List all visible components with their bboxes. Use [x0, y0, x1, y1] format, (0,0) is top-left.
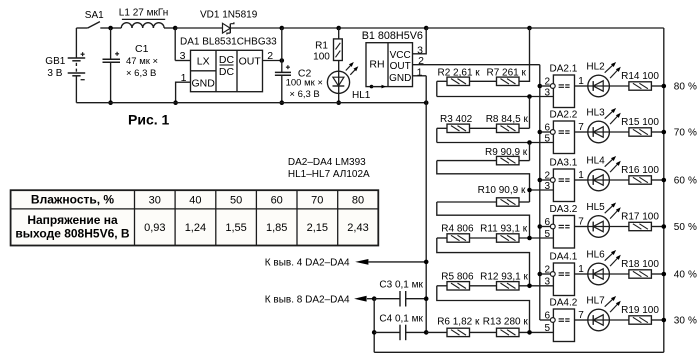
label R13: [483, 316, 529, 327]
svg-text:%: %: [688, 269, 697, 280]
label R16 100: [621, 165, 659, 176]
wire R10 jog: [437, 202, 530, 238]
op-amp DA4.1: [550, 263, 574, 296]
svg-text:R16 100: R16 100: [621, 165, 659, 176]
net to pin4 arrow: [355, 259, 426, 265]
svg-text:R5 806: R5 806: [441, 271, 474, 282]
label L1 value: [119, 8, 168, 19]
svg-text:2,15: 2,15: [307, 222, 328, 234]
svg-text:R17 100: R17 100: [621, 212, 659, 223]
pin 1 output DA2.1: [575, 76, 588, 87]
svg-text:3: 3: [544, 87, 550, 98]
resistor R16: [609, 176, 663, 184]
label HL1: [352, 90, 371, 101]
wire top rail left: [111, 27, 122, 29]
label GND B1: [389, 73, 411, 84]
node junction B: [527, 140, 532, 145]
label DA2.1: [550, 64, 578, 75]
pin 1 output DA3.1: [575, 170, 588, 181]
table humidity-voltage: [11, 190, 379, 245]
node junction R1 branch: [336, 26, 341, 31]
svg-text:R11 93,1 к: R11 93,1 к: [480, 224, 528, 235]
label C1 value: [126, 56, 158, 79]
node junction out rail row 3: [538, 178, 543, 183]
svg-text:3: 3: [544, 277, 550, 288]
table row humidity values: [149, 194, 364, 206]
svg-text:R19 100: R19 100: [621, 305, 659, 316]
svg-text:R7 261 к: R7 261 к: [487, 67, 527, 78]
node junction DA1 gnd: [173, 100, 178, 105]
svg-text:R3 402: R3 402: [440, 114, 473, 125]
resistor R17: [609, 222, 663, 230]
pin 5 label DA3.2: [544, 229, 550, 240]
pin 1 DA1: [176, 72, 191, 103]
resistor R10: [437, 198, 530, 206]
svg-text:DA3.2: DA3.2: [550, 204, 578, 215]
resistor R12: [470, 282, 554, 290]
label HL1-HL7 AL102A: [288, 169, 370, 180]
svg-text:GND: GND: [389, 73, 411, 84]
svg-text:DA2.1: DA2.1: [550, 64, 578, 75]
svg-text:HL1: HL1: [352, 90, 371, 101]
wire C2 riser: [281, 28, 283, 72]
svg-text:70: 70: [311, 194, 323, 206]
capacitor C1: [103, 28, 121, 103]
svg-text:%: %: [688, 175, 697, 186]
svg-text:1: 1: [417, 66, 423, 78]
sensor electrode arrow: [370, 85, 386, 89]
node junction gnd rail end: [424, 100, 429, 105]
led HL6: [588, 250, 621, 285]
svg-text:60: 60: [674, 175, 686, 186]
resistor R13: [470, 328, 554, 336]
label HL3: [586, 108, 605, 119]
label R18 100: [621, 259, 659, 270]
svg-text:LX: LX: [197, 55, 210, 67]
wire top rail to right corner: [530, 27, 664, 29]
pin 3 label DA3.1: [544, 181, 550, 192]
svg-text:R10 90,9 к: R10 90,9 к: [478, 185, 526, 196]
svg-text:R1: R1: [315, 41, 328, 52]
node junction HL1 bottom: [336, 100, 341, 105]
wire top rail L1 to VD1 node: [164, 27, 175, 29]
svg-text:DA1 BL8531CHBG33: DA1 BL8531CHBG33: [180, 36, 277, 47]
wire node A: [437, 81, 554, 96]
svg-text:47 мк ×: 47 мк ×: [126, 56, 158, 67]
node junction ladder VCC feed: [527, 26, 532, 31]
svg-text:Напряжение на: Напряжение на: [27, 213, 118, 227]
svg-text:× 6,3 В: × 6,3 В: [289, 89, 319, 100]
wire R5 jog: [437, 286, 530, 333]
led HL1: [327, 62, 358, 93]
label HL4: [586, 156, 605, 167]
wire top rail to B1 VCC node: [339, 27, 427, 29]
label 60 %: [674, 175, 697, 186]
label 80 %: [674, 81, 697, 92]
svg-text:30: 30: [674, 315, 686, 326]
svg-text:%: %: [688, 127, 697, 138]
label VCC: [390, 50, 411, 61]
node junction out rail row 5: [538, 272, 543, 277]
svg-text:DA2–DA4 LM393: DA2–DA4 LM393: [288, 157, 366, 168]
svg-text:VD1 1N5819: VD1 1N5819: [200, 9, 258, 20]
svg-text:1: 1: [578, 170, 584, 181]
inductor L1: [121, 19, 165, 28]
svg-text:40: 40: [189, 194, 201, 206]
wire top rail to ladder feed: [426, 27, 529, 29]
svg-text:50: 50: [230, 194, 242, 206]
wire node B to R9: [529, 143, 531, 161]
svg-text:OUT: OUT: [239, 55, 262, 67]
svg-text:DC: DC: [219, 54, 235, 66]
svg-text:HL6: HL6: [586, 250, 605, 261]
label DA1 BL8531CHBG33: [180, 36, 277, 47]
svg-text:Влажность, %: Влажность, %: [31, 193, 114, 207]
svg-text:HL5: HL5: [586, 202, 605, 213]
resistor R1: [334, 28, 343, 61]
pin 7 output DA2.2: [575, 122, 588, 133]
pin 6 wire DA2.2: [540, 123, 551, 134]
label LX: [197, 55, 210, 67]
label R17 100: [621, 212, 659, 223]
svg-text:5: 5: [544, 323, 550, 334]
svg-text:1,24: 1,24: [185, 222, 206, 234]
svg-text:2,43: 2,43: [347, 222, 368, 234]
wire sensor out rail: [539, 65, 541, 320]
node junction C2 bottom: [280, 100, 285, 105]
op-amp DA2.1: [550, 75, 574, 108]
node junction A: [527, 94, 532, 99]
svg-text:Рис. 1: Рис. 1: [128, 112, 170, 128]
wire top rail diode to C2 node: [230, 27, 281, 29]
pin 1 B1: [413, 66, 427, 78]
pin 2 wire DA3.1: [540, 171, 551, 182]
svg-text:3 В: 3 В: [47, 68, 62, 79]
wire node B: [437, 128, 554, 142]
svg-text:R18 100: R18 100: [621, 259, 659, 270]
ic DA1 box: [191, 50, 263, 91]
node junction out rail row 4: [538, 224, 543, 229]
label C3: [379, 280, 423, 291]
label R8: [486, 114, 529, 125]
pin 3 label DA2.1: [544, 87, 550, 98]
svg-text:30: 30: [149, 194, 161, 206]
op-amp DA3.2: [550, 216, 574, 249]
wire R1 to HL1: [338, 61, 340, 103]
svg-text:GND: GND: [192, 78, 216, 90]
svg-text:DA3.1: DA3.1: [550, 158, 578, 169]
svg-text:R8 84,5 к: R8 84,5 к: [486, 114, 529, 125]
op-amp DA2.2: [550, 121, 574, 154]
svg-text:80: 80: [352, 194, 364, 206]
node junction C4 left: [372, 330, 377, 335]
capacitor C2: [275, 65, 291, 103]
node junction right rail row 4: [662, 224, 667, 229]
label 40 %: [674, 269, 697, 280]
label K vyv 8: [265, 294, 350, 305]
sensor B1 box: [366, 43, 413, 87]
svg-text:R6 1,82 к: R6 1,82 к: [437, 316, 480, 327]
wire VCC feed to R7: [519, 28, 530, 81]
label C2: [298, 67, 312, 79]
label DA4.2: [550, 298, 578, 309]
label OUT DA1: [239, 55, 262, 67]
resistor R4: [437, 234, 470, 242]
svg-text:С3 0,1 мк: С3 0,1 мк: [379, 280, 423, 291]
label R12: [480, 271, 528, 282]
label K vyv 4: [265, 257, 350, 268]
resistor R7: [470, 77, 520, 85]
resistor R3: [437, 124, 470, 132]
led HL4: [588, 156, 621, 191]
svg-text:R9 90,9 к: R9 90,9 к: [485, 147, 528, 158]
svg-text:1,85: 1,85: [266, 222, 287, 234]
led HL5: [588, 203, 621, 238]
label DA3.1: [550, 158, 578, 169]
wire top rail to diode: [175, 27, 222, 29]
resistor R14: [609, 82, 663, 90]
svg-text:5: 5: [544, 133, 550, 144]
svg-text:R13 280 к: R13 280 к: [483, 316, 529, 327]
label DA2-DA4 LM393: [288, 157, 366, 168]
node junction E: [527, 284, 532, 289]
label DA4.1: [550, 252, 578, 263]
label R19 100: [621, 305, 659, 316]
svg-text:100 мк ×: 100 мк ×: [286, 78, 323, 89]
label C1: [135, 43, 149, 55]
svg-text:HL4: HL4: [586, 156, 605, 167]
resistor R18: [609, 270, 663, 278]
pin 2 DA1: [263, 50, 282, 62]
label RH: [369, 58, 384, 70]
svg-text:0,93: 0,93: [144, 222, 165, 234]
label R4: [441, 224, 474, 235]
pin 7 output DA3.2: [575, 216, 588, 227]
resistor R6: [426, 328, 469, 336]
svg-text:6: 6: [544, 217, 550, 228]
svg-text:SA1: SA1: [85, 10, 104, 21]
pin 7 output DA4.2: [575, 310, 588, 321]
wire bottom rail: [374, 351, 664, 353]
svg-text:1: 1: [578, 264, 584, 275]
svg-text:B1 808H5V6: B1 808H5V6: [362, 30, 423, 42]
pin 2 wire DA4.1: [540, 265, 551, 276]
node junction C4 right gnd: [424, 330, 429, 335]
wire R9 jog: [437, 161, 530, 202]
resistor R15: [609, 128, 663, 136]
svg-text:DC: DC: [219, 66, 235, 78]
svg-text:2: 2: [544, 77, 550, 88]
op-amp DA3.1: [550, 169, 574, 202]
svg-text:7: 7: [578, 216, 584, 227]
svg-text:%: %: [688, 315, 697, 326]
svg-text:VCC: VCC: [390, 50, 411, 61]
led HL2: [588, 62, 621, 97]
svg-text:70: 70: [674, 127, 686, 138]
led HL3: [588, 108, 621, 143]
node junction DA1 LX branch: [173, 26, 178, 31]
svg-text:GB1: GB1: [45, 56, 65, 67]
svg-text:К выв. 4 DA2–DA4: К выв. 4 DA2–DA4: [265, 257, 350, 268]
svg-text:R12 93,1 к: R12 93,1 к: [480, 271, 528, 282]
node junction right rail row 1: [662, 84, 667, 89]
label DA2.2: [550, 110, 578, 121]
pin 1 output DA4.1: [575, 264, 588, 275]
net to pin8 arrow: [354, 296, 374, 302]
svg-text:R14 100: R14 100: [621, 71, 659, 82]
label B1 808H5V6: [362, 30, 423, 42]
svg-text:7: 7: [578, 310, 584, 321]
resistor R2: [437, 77, 470, 85]
resistor R11: [470, 234, 554, 242]
node junction C3 right: [424, 296, 429, 301]
svg-text:%: %: [688, 222, 697, 233]
label HL2: [586, 62, 605, 73]
switch SA1: [76, 22, 110, 28]
node junction C1 bottom: [108, 100, 113, 105]
svg-text:выходе 808H5V6, В: выходе 808H5V6, В: [15, 226, 130, 240]
svg-text:R15 100: R15 100: [621, 117, 659, 128]
node junction C: [527, 188, 532, 193]
table header humidity: [31, 193, 114, 207]
svg-text:К выв. 8 DA2–DA4: К выв. 8 DA2–DA4: [265, 294, 350, 305]
node junction C3 left: [372, 296, 377, 301]
svg-text:80: 80: [674, 81, 686, 92]
battery GB1: [68, 28, 86, 103]
svg-text:OUT: OUT: [390, 61, 411, 72]
svg-text:7: 7: [578, 122, 584, 133]
label 50 %: [674, 222, 697, 233]
wire R4 jog: [437, 238, 530, 286]
pin 6 wire DA3.2: [540, 217, 551, 228]
svg-text:HL3: HL3: [586, 108, 605, 119]
label R7: [487, 67, 527, 78]
table row voltage values: [144, 222, 369, 234]
svg-text:HL1–HL7 АЛ102А: HL1–HL7 АЛ102А: [288, 169, 370, 180]
label R3: [440, 114, 473, 125]
label OUT B1: [390, 61, 411, 72]
pin 3 B1: [413, 28, 427, 56]
svg-text:40: 40: [674, 269, 686, 280]
node junction top C1: [108, 26, 113, 31]
svg-text:5: 5: [544, 229, 550, 240]
label HL6: [586, 250, 605, 261]
wire node A to R8: [529, 97, 531, 129]
label C4: [379, 314, 423, 325]
diode VD1: [223, 22, 234, 34]
node junction out rail row 1: [538, 84, 543, 89]
wire gnd vertical: [425, 76, 427, 333]
node junction right rail row 5: [662, 272, 667, 277]
label GND DA1: [192, 78, 216, 90]
label 70 %: [674, 127, 697, 138]
wire pin8 net vertical: [373, 299, 375, 353]
svg-text:1,55: 1,55: [225, 222, 246, 234]
svg-text:3: 3: [544, 181, 550, 192]
label GB1: [45, 56, 65, 67]
svg-text:2: 2: [267, 50, 273, 62]
pin 3 label DA4.1: [544, 277, 550, 288]
label HL7: [586, 296, 605, 307]
label R14 100: [621, 71, 659, 82]
svg-text:%: %: [688, 81, 697, 92]
node junction F: [527, 330, 532, 335]
node junction right rail row 6: [662, 318, 667, 323]
table header voltage: [15, 213, 130, 240]
label R6: [437, 316, 480, 327]
node junction out rail row 2: [538, 130, 543, 135]
node junction right rail row 2: [662, 130, 667, 135]
wire top rail to R1 node: [282, 27, 339, 29]
wire gnd rail: [76, 102, 426, 104]
svg-text:1: 1: [578, 76, 584, 87]
svg-text:DA4.2: DA4.2: [550, 298, 578, 309]
node junction pin4 tap: [424, 260, 429, 265]
svg-text:С4 0,1 мк: С4 0,1 мк: [379, 314, 423, 325]
svg-text:HL7: HL7: [586, 296, 605, 307]
label SA1: [85, 10, 104, 21]
wire node C: [530, 189, 554, 191]
pin 2 wire DA2.1: [540, 77, 551, 88]
node junction B1 VCC riser: [424, 26, 429, 31]
svg-text:3: 3: [180, 50, 186, 62]
label R11: [480, 224, 528, 235]
label DC DC: [219, 54, 235, 78]
capacitor C4: [374, 325, 426, 341]
capacitor C3: [374, 291, 426, 307]
op-amp DA4.2: [550, 309, 574, 342]
svg-text:DA2.2: DA2.2: [550, 110, 578, 121]
resistor R5: [437, 282, 470, 290]
svg-text:L1 27 мкГн: L1 27 мкГн: [119, 8, 168, 19]
svg-text:6: 6: [544, 311, 550, 322]
pin 3 DA1: [175, 28, 190, 62]
svg-text:60: 60: [271, 194, 283, 206]
pin 2 B1: [413, 55, 540, 67]
label R10: [478, 185, 526, 196]
label R1: [313, 41, 330, 63]
svg-text:× 6,3 В: × 6,3 В: [126, 68, 156, 79]
pin 5 label DA2.2: [544, 133, 550, 144]
svg-text:2: 2: [544, 265, 550, 276]
wire right rail: [663, 28, 665, 352]
svg-text:6: 6: [544, 123, 550, 134]
svg-text:RH: RH: [369, 58, 384, 70]
resistor R9: [437, 156, 530, 164]
resistor R19: [609, 316, 663, 324]
pin 5 label DA4.2: [544, 323, 550, 334]
node junction DA1 out: [280, 58, 285, 63]
label R2: [438, 67, 481, 78]
node junction right rail row 3: [662, 178, 667, 183]
label R5: [441, 271, 474, 282]
label R15 100: [621, 117, 659, 128]
svg-text:DA4.1: DA4.1: [550, 252, 578, 263]
label VD1 1N5819: [200, 9, 258, 20]
svg-text:100: 100: [313, 51, 330, 62]
label DA3.2: [550, 204, 578, 215]
svg-text:C1: C1: [135, 43, 149, 55]
label Ris 1: [128, 112, 170, 128]
pin 6 wire DA4.2: [540, 311, 551, 322]
label 30 %: [674, 315, 697, 326]
svg-text:50: 50: [674, 222, 686, 233]
label C2 value: [286, 78, 323, 100]
node junction C2 branch top: [280, 26, 285, 31]
svg-text:1: 1: [181, 72, 187, 84]
led HL7: [588, 296, 621, 331]
label 3 V: [47, 68, 62, 79]
